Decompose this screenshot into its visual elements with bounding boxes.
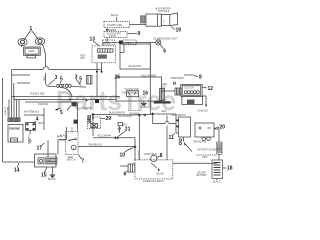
svg-text:YEL/BLK RED: YEL/BLK RED <box>30 94 45 96</box>
bus wire 1 <box>12 96 120 98</box>
wire below diamond with hop <box>153 116 176 124</box>
headlight lamp right (item 1) <box>35 38 44 45</box>
svg-text:ORANGE: ORANGE <box>38 103 48 106</box>
ground below box B <box>141 101 149 109</box>
wire x107 from fuse node to main wire <box>106 28 108 43</box>
svg-text:SOL: SOL <box>162 86 167 88</box>
svg-text:24 BLACK: 24 BLACK <box>197 110 208 113</box>
wire oil light branch down x150.3 <box>149 43 151 115</box>
wire lamp left stem <box>21 45 23 47</box>
svg-text:20: 20 <box>220 124 226 130</box>
svg-text:CLUTCH: CLUTCH <box>185 88 195 90</box>
svg-text:BLACK: BLACK <box>111 14 119 17</box>
junction block dark at x120.7 <box>119 41 123 44</box>
wire into interlock left <box>120 165 128 167</box>
wire lamp lead below hop to connector <box>46 73 49 86</box>
lower compartment of connector 12 <box>182 96 203 104</box>
battery (item 18) <box>212 154 223 178</box>
battery captions <box>197 173 222 184</box>
dashed wire stub under box B <box>128 109 141 111</box>
svg-text:B+ WHT: B+ WHT <box>4 107 6 116</box>
label 19 <box>171 27 181 34</box>
svg-text:14: 14 <box>14 168 20 174</box>
bus wire 2 <box>14 99 116 101</box>
svg-text:19: 19 <box>176 28 182 34</box>
svg-text:17: 17 <box>37 146 43 152</box>
svg-text:YELLOW: YELLOW <box>137 150 139 159</box>
wire lamp right stem curving down <box>43 45 46 67</box>
wire from connector 12 right with arrow <box>197 96 208 113</box>
label 18 <box>223 166 233 172</box>
svg-text:OIL PRESSURE LIGHT: OIL PRESSURE LIGHT <box>153 38 178 40</box>
connector block 13 (dashed box) <box>81 46 116 63</box>
svg-text:6: 6 <box>163 48 166 54</box>
svg-text:BLACK: BLACK <box>213 181 221 184</box>
label 20 <box>214 124 225 130</box>
svg-text:FUSE: FUSE <box>104 43 111 45</box>
center relay blob 2 <box>74 103 78 132</box>
mower deck box B <box>115 75 162 102</box>
fuel solenoid right of box B <box>154 84 171 104</box>
svg-text:2: 2 <box>62 84 65 90</box>
riser wire labels vertical <box>4 107 10 117</box>
svg-text:PINK/BLACK: PINK/BLACK <box>89 144 103 147</box>
label 9 <box>128 31 141 37</box>
node dot below fuse <box>106 29 108 31</box>
svg-text:ENGINE: ENGINE <box>9 126 20 130</box>
svg-text:PINK: PINK <box>43 76 45 81</box>
wire horizontal with crossover hop at x46 <box>12 67 102 70</box>
label 13 <box>90 37 100 47</box>
label 11 <box>169 134 176 142</box>
svg-text:RED/BLK: RED/BLK <box>27 136 29 146</box>
svg-text:WHITE/BLACK: WHITE/BLACK <box>24 110 40 113</box>
console caption <box>155 8 171 13</box>
left border wire vertical x12 <box>11 70 13 97</box>
comb connector <box>88 115 91 124</box>
wire box20 to solenoid hatch <box>214 129 219 142</box>
svg-text:A: A <box>73 146 75 150</box>
svg-text:BLK: BLK <box>81 58 86 60</box>
PTO switch vertical wires <box>48 140 58 158</box>
clutch connector 12 <box>181 85 202 97</box>
hour meter console (item 19) <box>141 13 178 26</box>
svg-text:SWITCH: SWITCH <box>67 159 76 161</box>
voltage regulator box (item 4) <box>26 123 36 131</box>
svg-text:8: 8 <box>160 153 163 159</box>
diamond node on wire y114 <box>151 112 154 115</box>
starter solenoid box (item 20) <box>195 123 214 141</box>
svg-text:START: START <box>11 139 19 142</box>
svg-text:21: 21 <box>125 127 131 133</box>
wire from BLACK label down to fuse box <box>116 17 118 22</box>
labels 3 and 5 left pair <box>49 75 63 85</box>
junction square on bus <box>95 99 99 103</box>
bottom main wire y162 <box>3 161 35 163</box>
relay terminal box left (item 6) <box>128 164 135 172</box>
label 29 <box>101 116 112 122</box>
label 21 <box>119 127 131 137</box>
small box right of diode module <box>118 123 128 127</box>
ENGINE box <box>8 125 23 143</box>
contactor inside box B <box>125 88 149 97</box>
junction dot at x135 y147 <box>134 146 136 148</box>
svg-text:26: 26 <box>115 75 121 81</box>
svg-text:BLACK: BLACK <box>48 178 56 181</box>
svg-text:10: 10 <box>120 153 126 159</box>
small relay box above bus <box>87 76 93 85</box>
S curve wire <box>67 106 71 110</box>
lamp harness box <box>24 47 41 58</box>
svg-text:RED: RED <box>162 111 167 113</box>
purple wire from box B right <box>162 78 185 95</box>
svg-text:8: 8 <box>199 75 202 81</box>
svg-text:BLACK: BLACK <box>141 106 149 109</box>
svg-text:20 AMP FUSE: 20 AMP FUSE <box>107 24 122 27</box>
inline fuse dashed box 1 <box>103 40 115 45</box>
label 15 <box>41 168 47 179</box>
svg-text:BLK/WHT: BLK/WHT <box>130 114 141 116</box>
relay switch inside <box>151 163 165 176</box>
svg-text:5: 5 <box>79 77 82 83</box>
headlight lamp left (item 1) <box>18 39 27 46</box>
wire y114 continue to x176 and down <box>154 114 178 133</box>
main accessory wire y42.5 <box>103 43 156 46</box>
svg-text:12: 12 <box>208 86 214 92</box>
svg-text:MAG BLK: MAG BLK <box>6 107 9 117</box>
engine risers <box>8 97 20 122</box>
diode module dashed box (item 29) <box>88 117 101 129</box>
interlock relay dashed box <box>135 160 173 183</box>
wires below ignition module <box>184 137 207 152</box>
label 8 interlock <box>157 153 163 159</box>
svg-text:RED BLACK: RED BLACK <box>194 141 207 144</box>
wire from label corner to regulator <box>24 108 44 130</box>
connector pair B (items 3/5) <box>62 84 86 96</box>
fuse link hatch (item 17 wire) <box>29 139 32 144</box>
wires from block 13 down with junction dots <box>96 63 103 97</box>
svg-text:RED: RED <box>39 123 44 125</box>
svg-text:11: 11 <box>169 135 175 141</box>
svg-text:INTERLOCK RELAY: INTERLOCK RELAY <box>143 180 165 183</box>
wire interlock to solenoid <box>173 162 217 164</box>
electrical box A <box>120 44 150 69</box>
svg-text:PINK: PINK <box>60 140 66 142</box>
junction dot x93 <box>92 113 95 116</box>
fuse holder dashed box top row <box>104 21 130 27</box>
svg-text:15: 15 <box>41 173 47 179</box>
nested corner stubs left <box>12 75 30 100</box>
wire x135 down to interlock box <box>135 115 139 160</box>
ignition module box right <box>176 117 190 145</box>
svg-text:3: 3 <box>55 75 58 81</box>
PTO switch box (item 15) <box>35 154 58 167</box>
seat switch dashed box (item 7) <box>60 132 78 162</box>
inline fuse dashed box 2 <box>123 40 136 45</box>
svg-text:BLACK: BLACK <box>60 134 68 137</box>
svg-text:RED: RED <box>203 157 208 159</box>
svg-text:LAMP: LAMP <box>28 50 35 53</box>
solenoid hatched block <box>217 142 222 154</box>
oil pressure light circle (item 6) <box>156 40 161 45</box>
vertical wire x167 to interlock <box>166 116 168 160</box>
label 7 <box>79 155 85 165</box>
label 10 with curve <box>120 148 134 159</box>
wire node stub right <box>107 29 116 31</box>
svg-text:BLACK BOX: BLACK BOX <box>129 65 142 68</box>
svg-text:LIGHT: LIGHT <box>109 36 116 38</box>
ground below PTO box <box>48 167 56 181</box>
svg-text:BLACK: BLACK <box>157 173 165 176</box>
center relay blob 1 <box>69 99 87 107</box>
svg-text:BATTERY: BATTERY <box>197 174 208 177</box>
label 6 bottom <box>124 171 129 178</box>
svg-text:BLACK/WHITE: BLACK/WHITE <box>109 112 125 115</box>
svg-text:PURPLE/WH: PURPLE/WH <box>170 78 184 80</box>
bus wire 3 partial <box>25 101 78 103</box>
svg-text:YELLOW: YELLOW <box>82 108 92 110</box>
relay coil circle <box>144 153 157 162</box>
wire y115 to right <box>93 112 152 117</box>
svg-text:YELLOW/WH: YELLOW/WH <box>97 136 111 138</box>
svg-text:5: 5 <box>60 110 63 116</box>
svg-text:START/RUN: START/RUN <box>144 153 157 156</box>
label 14 <box>14 163 20 174</box>
wire below regulator <box>27 130 30 145</box>
labels 3 and 5 right pair <box>75 75 83 86</box>
label 6 top <box>160 45 166 55</box>
svg-text:CONSOLE: CONSOLE <box>158 11 170 13</box>
label 1 with leader lines <box>24 26 38 40</box>
label 12 <box>202 86 213 92</box>
svg-text:4: 4 <box>36 117 39 123</box>
diode wire y138 with diode (item 21) <box>93 136 135 140</box>
svg-text:YELLOW/RED: YELLOW/RED <box>141 76 156 78</box>
label 17 <box>37 143 45 152</box>
arrows on x93 wire <box>92 116 94 136</box>
corner wire top right of PTO <box>58 127 67 140</box>
svg-text:18: 18 <box>227 166 233 172</box>
label 8 dark glyph above connector <box>184 75 202 81</box>
svg-text:13: 13 <box>90 37 96 43</box>
svg-text:RED/WH: RED/WH <box>184 75 194 77</box>
svg-text:9: 9 <box>138 31 141 37</box>
convenience light dashed box (item 9) <box>104 32 127 38</box>
solenoid caption <box>196 148 221 159</box>
connector pair A (items 3/5) <box>49 84 63 87</box>
svg-text:PTO: PTO <box>47 161 52 163</box>
diode symbol below <box>118 126 121 133</box>
wire fuse row to hour meter console <box>130 23 147 25</box>
arrow pointer left <box>56 109 61 110</box>
label 4 <box>33 117 39 124</box>
svg-text:16: 16 <box>143 91 149 97</box>
svg-text:29: 29 <box>106 116 112 122</box>
wire seat switch to interlock <box>78 144 135 147</box>
left outer border wire x2.5 <box>2 78 4 162</box>
